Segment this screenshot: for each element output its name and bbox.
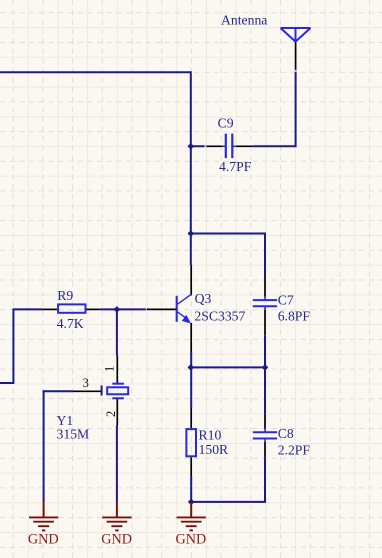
svg-text:R10: R10 <box>199 427 222 442</box>
svg-text:315M: 315M <box>57 427 90 442</box>
antenna <box>221 13 311 72</box>
svg-text:3: 3 <box>83 376 89 390</box>
capacitor C9 4.7PF <box>206 116 253 174</box>
svg-text:2: 2 <box>104 411 118 417</box>
junction: collector / C7 branch <box>188 230 195 237</box>
Q3 base pin <box>147 308 176 310</box>
svg-text:GND: GND <box>101 532 132 548</box>
junction: emitter / R10 <box>188 364 195 371</box>
ground GND (emitter net) <box>176 502 207 548</box>
wire: C7 bottom to junction <box>264 336 266 369</box>
svg-text:C9: C9 <box>218 116 234 131</box>
svg-text:C7: C7 <box>278 293 294 308</box>
wire: top horizontal net <box>0 71 191 73</box>
wire: Y1 pin 2 down to GND2 <box>116 426 118 503</box>
svg-text:2.2PF: 2.2PF <box>278 443 311 458</box>
ground GND (Y1 pin2 net) <box>101 502 132 548</box>
wire: base junction down to Y1 pin 1 <box>116 308 118 355</box>
svg-text:Antenna: Antenna <box>221 13 267 28</box>
junction: C9 / antenna net <box>188 143 195 150</box>
svg-text:GND: GND <box>176 532 207 548</box>
crystal Y1 315M <box>57 356 129 442</box>
transistor Q3 2SC3357 <box>177 265 246 352</box>
wire: C7/C8 junction down to C8 <box>264 367 266 414</box>
capacitor C8 2.2PF <box>253 414 311 458</box>
svg-text:R9: R9 <box>57 288 73 303</box>
wire: ground junction to C8 bottom <box>191 458 265 502</box>
svg-text:GND: GND <box>28 532 59 548</box>
svg-text:2SC3357: 2SC3357 <box>194 309 245 324</box>
wire: R10 bottom to ground junction <box>190 476 192 502</box>
svg-text:Y1: Y1 <box>57 413 74 428</box>
capacitor C7 6.8PF <box>253 277 311 336</box>
wire: emitter junction to C7/C8 junction <box>190 366 265 368</box>
svg-text:6.8PF: 6.8PF <box>278 309 311 324</box>
wire: R9 right pin to base <box>100 308 147 310</box>
svg-text:1: 1 <box>103 366 117 372</box>
resistor R9 4.7K <box>43 288 100 331</box>
wire: Y1 pin 3 to left vertical <box>43 390 73 392</box>
svg-text:4.7K: 4.7K <box>57 316 84 331</box>
wire: vertical net from top wire to Q3 collector <box>190 71 192 265</box>
wire: left net to R9 <box>0 309 43 383</box>
wire: down to GND1 <box>43 390 45 502</box>
ground GND (Y1 pin3 net) <box>28 502 59 548</box>
wire: emitter to junction <box>190 352 192 368</box>
svg-text:C8: C8 <box>278 426 294 441</box>
wire segment: C9 left pin to junction <box>190 145 206 147</box>
resistor R10 150R <box>186 408 229 476</box>
wire: emitter junction down to R10 <box>190 367 192 408</box>
svg-text:Q3: Q3 <box>195 291 212 306</box>
wire: collector junction to C7 <box>191 234 265 278</box>
svg-text:150R: 150R <box>199 442 230 457</box>
svg-text:4.7PF: 4.7PF <box>219 159 252 174</box>
junction: C7 / C8 / emitter net <box>262 364 269 371</box>
wire: C9 right to antenna <box>253 72 296 147</box>
junction: R9 / base / Y1 <box>114 306 121 313</box>
junction: R10 / C8 / GND <box>188 499 195 506</box>
